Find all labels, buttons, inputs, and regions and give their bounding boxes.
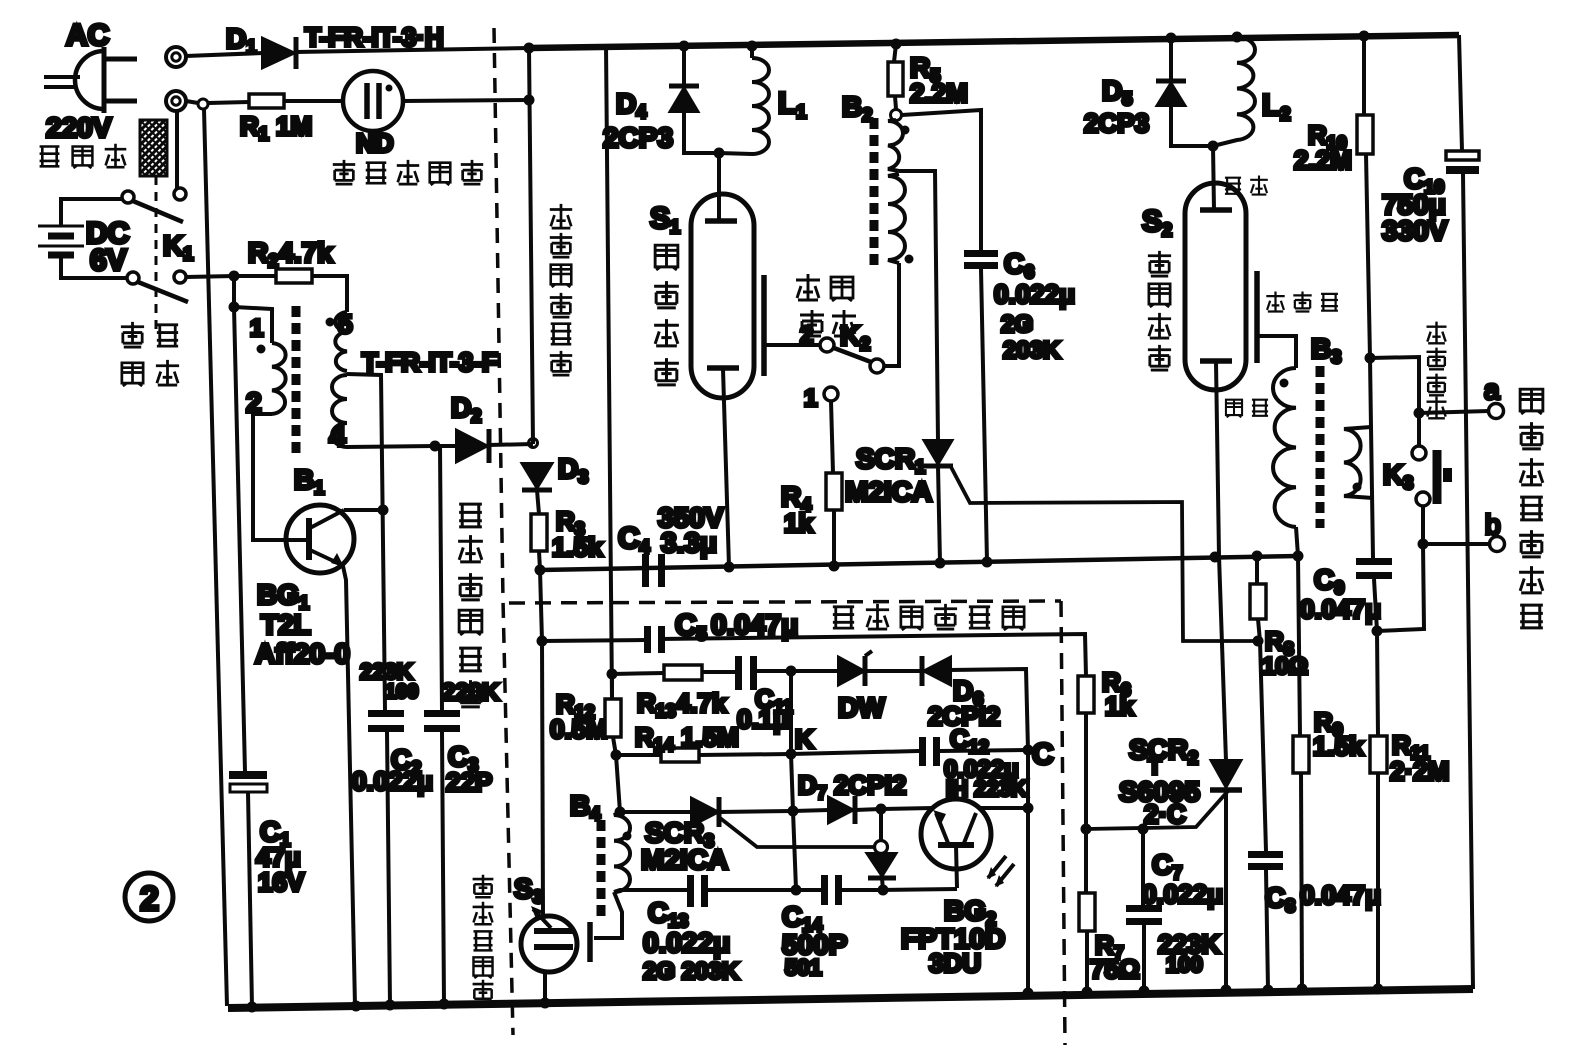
svg-text:M2ICA: M2ICA	[845, 476, 932, 507]
wire R13 to C11	[702, 670, 735, 674]
wire ND to right node	[403, 100, 529, 101]
resistor R3	[531, 514, 547, 551]
wire to S1 anode	[717, 153, 721, 221]
diode D1	[263, 39, 293, 67]
top HV bus	[529, 35, 1459, 48]
label 触发开关	[1427, 322, 1447, 419]
diode D5	[1169, 38, 1173, 81]
wire T2 to R1	[186, 101, 198, 103]
transformer B3 secondary	[1344, 427, 1373, 498]
wire C6 top	[902, 110, 981, 251]
inductor L1	[719, 46, 769, 154]
svg-text:2.2M: 2.2M	[910, 78, 968, 108]
svg-text:b: b	[1485, 509, 1501, 540]
resistor R2	[276, 269, 312, 283]
svg-text:R1 1M: R1 1M	[240, 111, 312, 144]
diode D4	[682, 46, 686, 86]
wire C9 node to R11	[1377, 631, 1378, 736]
S2 anode plate	[1200, 207, 1232, 213]
dashed separator line	[494, 28, 513, 1035]
capacitor C14	[821, 875, 828, 905]
lamp S3	[521, 906, 590, 972]
svg-text:ND: ND	[356, 128, 394, 158]
svg-text:T-FR-IT-3-F: T-FR-IT-3-F	[362, 347, 498, 377]
bottom ground bus	[228, 989, 1473, 1008]
resistor R1	[249, 94, 284, 108]
wire R14 to K node and C12	[699, 751, 919, 755]
diode D6	[920, 656, 925, 686]
svg-text:T2L: T2L	[261, 609, 311, 640]
capacitor C13	[687, 875, 694, 907]
capacitor C3	[440, 446, 442, 710]
resistor R9	[1293, 736, 1309, 773]
S1 anode plate	[705, 218, 737, 224]
phototransistor BG2	[921, 799, 1014, 888]
label 接闪光同步连线	[1519, 389, 1544, 628]
svg-text:2G: 2G	[1001, 311, 1033, 338]
wire K2 contact1 to R4	[831, 401, 833, 473]
svg-text:1k: 1k	[1105, 691, 1134, 721]
diode D3	[523, 464, 551, 487]
svg-text:330V: 330V	[1382, 215, 1448, 246]
svg-text:0.047μ: 0.047μ	[1300, 880, 1381, 910]
wire DW to D6	[865, 669, 920, 673]
wire D7 to BG2	[881, 808, 933, 809]
inductor L2	[1213, 37, 1255, 146]
label 触发闪光电路	[550, 204, 572, 375]
svg-text:0.022μ: 0.022μ	[643, 927, 730, 958]
node circle D2 output	[529, 439, 538, 448]
label 电源变换电路	[458, 504, 483, 707]
svg-text:0.047μ: 0.047μ	[711, 609, 798, 640]
transformer B1 core	[292, 306, 301, 454]
wire T2 to K1 pole	[175, 111, 179, 188]
wire R1 to ND	[284, 99, 343, 103]
wire b terminal	[1423, 542, 1490, 546]
svg-text:203K: 203K	[1003, 337, 1061, 364]
wire R8 to C8	[1260, 641, 1266, 851]
svg-text:22P: 22P	[446, 767, 492, 797]
svg-text:2: 2	[140, 880, 159, 918]
battery GB (DC 6V)	[38, 199, 127, 278]
wire D3 to R3	[537, 490, 539, 514]
svg-text:2·C: 2·C	[1144, 799, 1186, 829]
svg-text:10Ω: 10Ω	[1262, 653, 1308, 680]
wire a terminal	[1419, 411, 1489, 413]
switch K1	[122, 176, 188, 334]
label 绝缘板	[40, 144, 127, 168]
wire BG2 base row	[883, 889, 957, 890]
neon lamp ND	[343, 71, 403, 131]
wire B3 primary bottom to bus and R9	[1296, 527, 1300, 736]
capacitor C6	[964, 250, 998, 257]
trigger bus (C4 row)	[540, 556, 1298, 570]
resistor R13	[664, 665, 702, 680]
wire D1 to top bus	[296, 48, 529, 52]
wire C1 column	[234, 307, 245, 772]
wire R4 to bus	[832, 510, 836, 566]
label 阳板	[1225, 175, 1268, 194]
long vertical A from bus to dimmer	[606, 45, 612, 699]
resistor R4	[826, 473, 842, 510]
wire C11 to DW	[757, 669, 839, 673]
svg-text:1.5k: 1.5k	[1313, 731, 1364, 761]
wire C column down	[1026, 750, 1030, 993]
wire BG1 emitter down	[343, 566, 355, 1006]
wire node column x529	[529, 48, 533, 444]
svg-text:2G 203K: 2G 203K	[643, 958, 740, 985]
wire B4 bottom to S3 electrode	[594, 892, 622, 938]
wire K1 out to R2 node	[186, 276, 234, 277]
svg-text:2·2M: 2·2M	[1390, 756, 1449, 786]
svg-text:AC: AC	[66, 19, 109, 52]
S2 cathode plate	[1200, 358, 1232, 364]
svg-text:0.5M: 0.5M	[550, 714, 608, 744]
svg-text:3.3μ: 3.3μ	[661, 527, 717, 558]
wire to R1	[208, 102, 249, 103]
wire row4 C13	[614, 890, 687, 892]
wire C13 to C14	[708, 888, 821, 892]
diode D7	[829, 798, 852, 822]
svg-text:SCR1: SCR1	[856, 443, 925, 477]
label 充电指示灯	[333, 160, 483, 185]
wire BG1 collector	[344, 508, 381, 512]
dimmer dashed box right edge	[1061, 601, 1065, 1045]
capacitor C10	[1446, 151, 1479, 160]
svg-text:1.5k: 1.5k	[552, 532, 603, 562]
node circle R5/B2	[891, 110, 902, 121]
svg-text:2.2M: 2.2M	[1294, 145, 1352, 175]
svg-text:3DU: 3DU	[929, 948, 981, 978]
wire K2 pole to B2 secondary	[884, 263, 899, 366]
resistor R8	[1255, 556, 1259, 584]
wire K3 bottom to b and C9 node	[1377, 506, 1424, 631]
transformer B2 primary	[888, 120, 903, 171]
svg-text:T-FR-IT-3·H: T-FR-IT-3·H	[305, 22, 444, 52]
resistor R7	[1084, 829, 1088, 893]
dimmer dashed box top edge	[509, 601, 1061, 603]
svg-text:DW: DW	[838, 692, 885, 723]
wire B2 primary to SCR1	[899, 171, 938, 441]
svg-text:100: 100	[385, 681, 418, 703]
flash tube S2	[1185, 183, 1246, 390]
wire node to R2	[234, 274, 276, 278]
svg-text:0.022μ: 0.022μ	[352, 766, 433, 796]
transformer B1 winding 4	[332, 375, 347, 447]
wire R3 node down to C5 row	[540, 570, 542, 641]
svg-text:0.022μ: 0.022μ	[994, 279, 1075, 309]
transformer B4 winding	[614, 812, 630, 892]
transistor BG1	[286, 505, 354, 573]
wire trigger to B3 primary	[1259, 336, 1296, 368]
label 自动调光电路	[833, 604, 1024, 630]
svg-text:Aff20-0: Aff20-0	[255, 638, 350, 669]
wire B1 tap to C2 column	[347, 374, 385, 710]
label 辅闪光灯	[654, 245, 679, 385]
terminal a	[1489, 404, 1504, 419]
resistor R14	[661, 748, 699, 762]
wire D2 to column node	[435, 444, 533, 446]
svg-text:R14 1.5M: R14 1.5M	[635, 722, 739, 755]
label 触发板	[1266, 292, 1338, 312]
capacitor C8	[1248, 851, 1283, 858]
wire node drop to B1 winding1	[234, 276, 272, 343]
resistor R12	[605, 699, 621, 737]
transformer B3 primary	[1273, 368, 1296, 527]
wire left rail	[204, 109, 227, 1006]
SCR1	[925, 441, 951, 463]
capacitor C2	[368, 710, 404, 717]
wire S3 to bus	[543, 971, 547, 1004]
wire S1 cathode to bus	[723, 369, 729, 567]
svg-text:4: 4	[329, 420, 346, 453]
gate pulldown diode	[879, 809, 883, 840]
svg-text:501: 501	[785, 955, 822, 980]
svg-text:75Ω: 75Ω	[1090, 954, 1140, 984]
capacitor C5	[644, 626, 651, 653]
svg-text:1: 1	[250, 315, 263, 342]
svg-text:2CP3: 2CP3	[1084, 108, 1149, 138]
flash tube S1	[691, 194, 754, 398]
C5 row wire	[542, 634, 1086, 676]
svg-text:R24.7k: R24.7k	[248, 237, 333, 271]
svg-text:M2ICA: M2ICA	[641, 844, 728, 875]
wire C12 to C node	[940, 750, 1028, 751]
S1 trigger electrode	[761, 275, 767, 376]
terminal b	[1490, 537, 1505, 552]
wire B1 winding4 to D2	[347, 446, 435, 447]
wire to S2 anode	[1213, 146, 1214, 210]
svg-text:R134.7k: R134.7k	[637, 688, 727, 721]
switch K3	[1412, 446, 1426, 460]
svg-text:220V: 220V	[46, 112, 112, 143]
svg-text:16V: 16V	[258, 867, 305, 897]
svg-text:5: 5	[338, 309, 352, 339]
terminal T2	[166, 91, 186, 111]
wire row2 R14	[610, 674, 614, 699]
wire R14 row	[616, 753, 661, 757]
svg-text:2CP3: 2CP3	[603, 122, 673, 153]
zener DW	[839, 658, 863, 684]
wire BG2 collector to C column	[979, 806, 1028, 810]
S1 cathode plate	[707, 365, 739, 371]
svg-text:SCR2: SCR2	[1129, 734, 1198, 768]
wire S3 feed column	[542, 641, 543, 917]
capacitor C12	[919, 737, 926, 766]
svg-text:1k: 1k	[784, 508, 813, 538]
svg-text:6V: 6V	[90, 244, 127, 277]
capacitor C9	[1356, 558, 1392, 565]
transformer polarity dots	[257, 345, 266, 354]
resistor R5	[894, 44, 896, 62]
wire trigger to K2 contact2	[766, 343, 820, 347]
right edge column C10	[1459, 35, 1462, 151]
insulation board (hatched)	[140, 120, 167, 176]
wire R10 node to K3	[1370, 357, 1419, 446]
node small circle left rail top	[198, 99, 208, 109]
wire D1 anode	[186, 53, 263, 56]
wire R3 to trigger bus	[539, 551, 540, 570]
label 反射指示灯	[473, 875, 494, 1003]
wire row1 to R13	[612, 673, 664, 674]
SCR3	[692, 799, 717, 825]
wire C14 to diode node	[842, 888, 883, 892]
svg-text:100: 100	[1166, 952, 1203, 977]
transformer B2 secondary	[888, 174, 905, 263]
svg-text:K: K	[795, 724, 814, 754]
label 阴板	[1226, 400, 1268, 418]
svg-text:0.022μ: 0.022μ	[1142, 879, 1223, 909]
wire B1 winding2 to BG1 base	[253, 414, 309, 540]
transformer B4 core	[597, 820, 606, 918]
wire R2 to B1 winding5	[312, 276, 347, 312]
svg-text:1: 1	[804, 385, 817, 412]
capacitor C4	[642, 554, 649, 587]
wire S2 cathode down	[1216, 362, 1219, 556]
capacitor C11	[735, 656, 742, 690]
resistor R11	[1370, 736, 1387, 773]
transformer B2 core	[870, 118, 879, 268]
wire D6 to C column	[950, 669, 1028, 750]
diode D2	[457, 431, 486, 461]
label 选择开关 K2	[796, 274, 856, 336]
transformer B1 winding 5	[335, 312, 347, 371]
capacitor C1	[229, 771, 267, 779]
resistor R6	[1078, 676, 1094, 713]
svg-text:0.1μ: 0.1μ	[737, 704, 789, 734]
S2 trigger electrode	[1254, 271, 1260, 363]
wire K column	[791, 671, 796, 889]
label 电源开关	[121, 322, 179, 386]
terminal T1	[166, 47, 186, 67]
wire B3 secondary top column	[1370, 358, 1373, 558]
wire row3 B4 to SCR3	[620, 810, 692, 814]
svg-text:C: C	[1032, 738, 1054, 771]
switch K2	[820, 338, 834, 352]
circled figure 2	[125, 873, 173, 921]
transformer B1 primary winding 1-2	[272, 343, 286, 414]
svg-text:D7 2CPI2: D7 2CPI2	[798, 770, 906, 803]
transformer B3 core	[1316, 366, 1325, 528]
svg-text:a: a	[1484, 374, 1500, 405]
label 主闪光灯	[1148, 251, 1171, 370]
AC plug P1	[44, 47, 137, 113]
SCR2	[1219, 556, 1226, 761]
resistor R10	[1362, 36, 1366, 115]
svg-text:0.047μ: 0.047μ	[1300, 594, 1381, 624]
capacitor C7	[1141, 829, 1145, 905]
